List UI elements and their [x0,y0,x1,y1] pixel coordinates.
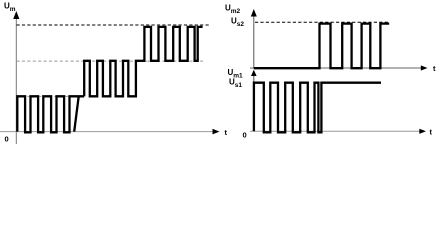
waveform Um group 2 and group 3 pulses [84,27,202,96]
t-axis [0,131,215,133]
y-axis arrowhead [13,11,19,19]
y-axis bottom-right [253,73,255,131]
dashed level line Um max (dark) [17,24,210,26]
y-axis arrowhead [251,9,257,17]
y-axis top-right [253,12,255,68]
y-axis [15,14,17,144]
t-axis top-right [250,67,422,69]
waveform Us2 pulses [254,24,389,69]
waveform Um group 1 pulses [17,96,84,132]
t-axis bottom-right [250,130,421,132]
waveform Um transition slant [74,96,79,131]
svg-text:0: 0 [243,131,247,140]
t-axis arrowhead [419,129,426,134]
y-axis arrowhead [251,70,257,76]
dashed level line step 1 (light) [17,95,84,97]
t-axis arrowhead [213,129,220,135]
t-axis arrowhead [421,65,428,70]
svg-text:0: 0 [5,135,9,144]
dashed level line step 2 (light) [17,60,204,62]
waveform Us1 pulses [254,83,381,133]
dashed level line Us2 [255,21,388,23]
